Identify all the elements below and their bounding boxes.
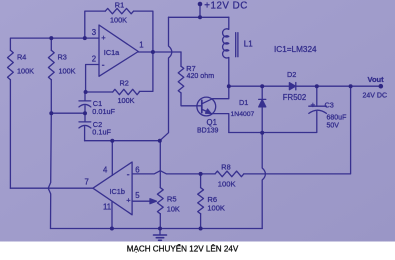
svg-text:D1: D1 <box>239 98 248 107</box>
svg-text:IC1b: IC1b <box>110 187 125 196</box>
svg-text:420 ohm: 420 ohm <box>187 72 215 80</box>
svg-text:11: 11 <box>103 203 111 212</box>
svg-text:R3: R3 <box>58 53 67 62</box>
svg-text:R8: R8 <box>221 163 230 172</box>
svg-text:680uF: 680uF <box>327 115 347 122</box>
wire collector column <box>202 86 229 103</box>
wire output column down to R2 <box>139 52 153 91</box>
capacitor C3 <box>316 86 318 106</box>
wire R3 top lead <box>50 38 52 50</box>
svg-text:1: 1 <box>139 41 143 50</box>
diode D2 <box>289 83 295 90</box>
wire output top rail y86 <box>229 85 290 87</box>
svg-text:+12V DC: +12V DC <box>204 0 248 11</box>
resistor R6 <box>200 174 202 188</box>
svg-text:0.1uF: 0.1uF <box>92 127 111 136</box>
svg-text:3: 3 <box>92 28 96 37</box>
svg-text:1N4007: 1N4007 <box>231 111 255 118</box>
wire IC1b pin5 arrow to R5 <box>132 200 151 202</box>
svg-text:+: + <box>101 33 106 42</box>
wire IC1b pin11 <box>111 202 113 229</box>
resistor R1 <box>105 8 133 13</box>
svg-text:100K: 100K <box>110 16 127 25</box>
transistor Q1 emitter arrow <box>206 109 211 113</box>
wire R1 left column <box>85 11 106 38</box>
svg-text:50V: 50V <box>327 123 340 130</box>
terminal Vout <box>379 84 384 89</box>
svg-text:+: + <box>126 196 131 205</box>
op-amp IC1a <box>99 25 138 76</box>
svg-text:24V DC: 24V DC <box>363 93 388 100</box>
svg-text:-: - <box>127 170 130 180</box>
diode D1 <box>261 86 263 99</box>
svg-text:Q1: Q1 <box>207 118 217 127</box>
svg-text:IC1a: IC1a <box>104 48 120 57</box>
ground symbol <box>159 229 161 235</box>
svg-text:R2: R2 <box>120 79 129 88</box>
wire C1-C2 tap to R3 <box>51 112 85 114</box>
svg-text:6: 6 <box>135 166 139 175</box>
svg-text:100K: 100K <box>207 203 225 212</box>
svg-text:100K: 100K <box>17 67 34 76</box>
wire C2 bottom to R5 column (pin4 net) <box>85 140 160 142</box>
resistor R5 column <box>159 141 161 188</box>
svg-text:100K: 100K <box>218 180 236 189</box>
inductor L1 core bars <box>235 33 237 57</box>
svg-text:MẠCH CHUYỂN 12V LÊN 24V: MẠCH CHUYỂN 12V LÊN 24V <box>127 245 239 254</box>
svg-text:0.01uF: 0.01uF <box>92 107 115 116</box>
svg-text:100K: 100K <box>118 96 135 105</box>
svg-text:+: + <box>311 101 316 110</box>
svg-text:2: 2 <box>92 55 96 64</box>
svg-text:C3: C3 <box>325 101 334 110</box>
svg-text:7: 7 <box>85 178 89 187</box>
svg-text:IC1=LM324: IC1=LM324 <box>274 45 317 54</box>
transistor Q1 circle <box>197 97 216 116</box>
transistor Q1 base bar <box>201 100 203 112</box>
svg-text:D2: D2 <box>287 70 296 79</box>
terminal +12V <box>198 2 203 7</box>
capacitor C1 <box>84 92 86 101</box>
svg-text:10K: 10K <box>167 204 180 213</box>
wire IC1b pin4 <box>111 141 113 176</box>
wire IC1a output <box>138 51 181 53</box>
wire D1 down with hop over R8 wire, to ground rail <box>262 107 265 229</box>
svg-text:R5: R5 <box>167 194 177 203</box>
resistor R3 <box>48 50 54 79</box>
svg-text:R4: R4 <box>17 53 26 62</box>
wire +12V drop <box>199 4 201 17</box>
resistor R4 <box>8 50 14 79</box>
svg-text:Vout: Vout <box>368 75 385 84</box>
wire pin6 line with hop over R5 column <box>132 171 215 174</box>
wire +12V rail <box>169 16 229 18</box>
inductor L1 <box>223 17 229 86</box>
svg-text:BD139: BD139 <box>197 128 219 135</box>
wire IC1a pin2 stub <box>86 65 99 92</box>
op-amp IC1b <box>93 162 132 215</box>
capacitor C2 <box>84 113 86 122</box>
wire R3 column down with hop over IC1b output <box>48 80 51 229</box>
svg-text:R1: R1 <box>115 0 124 9</box>
wire R1 right to output column <box>134 11 153 52</box>
wire pin3 net top-left <box>10 38 99 50</box>
resistor R7 leads <box>180 52 182 66</box>
svg-text:FR502: FR502 <box>283 93 306 102</box>
svg-text:100K: 100K <box>59 67 76 76</box>
resistor R2 <box>113 89 140 94</box>
wire R7 bottom to Q1 base <box>181 93 202 106</box>
wire R2 left to pin2 node <box>86 91 113 93</box>
transistor Q1 emitter <box>202 110 229 133</box>
resistor R8 <box>215 171 244 177</box>
wire ground bus (emitter to C3) <box>229 111 317 133</box>
wire IC1b output with R3 column crossing <box>10 187 93 189</box>
svg-text:L1: L1 <box>244 39 253 48</box>
wire feedback column from Vout <box>244 86 351 174</box>
svg-text:4: 4 <box>103 166 108 175</box>
svg-text:5: 5 <box>135 191 140 200</box>
ground rail <box>51 228 263 230</box>
wire R4 bottom to IC1b output column <box>9 80 11 189</box>
svg-text:-: - <box>102 60 105 70</box>
wire +12V column with hop over IC1a out, jog down to pin4 net <box>160 17 172 140</box>
